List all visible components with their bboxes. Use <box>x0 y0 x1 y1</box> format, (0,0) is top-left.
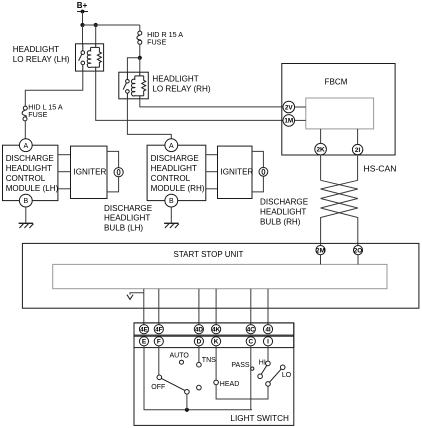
svg-text:HEADLIGHT: HEADLIGHT <box>152 75 198 84</box>
terminal 2K <box>315 143 327 155</box>
svg-text:4I: 4I <box>265 326 271 333</box>
start stop unit box <box>22 243 419 308</box>
svg-text:HEADLIGHT: HEADLIGHT <box>104 214 150 223</box>
terminal 1M <box>283 115 295 127</box>
svg-text:HEADLIGHT: HEADLIGHT <box>260 208 306 217</box>
switch TNS contact lower <box>197 385 202 390</box>
wire RH relay coil to FBCM 2V <box>140 99 283 107</box>
svg-text:DISCHARGE: DISCHARGE <box>104 204 153 213</box>
svg-text:F: F <box>157 339 161 346</box>
switch LO contact <box>280 365 285 370</box>
terminal C <box>246 337 255 346</box>
wire B+ down <box>82 12 84 26</box>
wire fuse L to module A <box>24 121 26 139</box>
wire to 4E with ground arrow stub <box>127 289 144 325</box>
svg-text:4C: 4C <box>247 326 256 333</box>
wire to LH relay switch <box>82 25 84 44</box>
terminal F <box>154 337 163 346</box>
terminal 2O <box>353 246 362 255</box>
node junction right <box>94 23 98 27</box>
relay HEADLIGHT LO RELAY (RH) <box>119 72 149 99</box>
svg-text:I: I <box>267 339 269 346</box>
svg-text:HEAD: HEAD <box>220 381 239 388</box>
wire fuse R to junction <box>139 44 141 58</box>
switch HI contact <box>266 361 271 366</box>
terminal A RH <box>165 139 178 152</box>
svg-text:C: C <box>248 339 253 346</box>
ground LH <box>19 207 34 228</box>
wire module RH to igniter (3 lines) <box>206 155 218 189</box>
switch HEAD contact <box>214 380 219 385</box>
terminal A LH <box>19 139 32 152</box>
module DISCHARGE HEADLIGHT CONTROL MODULE (LH) <box>3 145 59 200</box>
svg-text:MODULE (LH): MODULE (LH) <box>6 184 59 193</box>
svg-text:IGNITER: IGNITER <box>74 168 107 177</box>
svg-text:A: A <box>23 143 28 150</box>
wire junction to RH relay switch <box>127 58 139 72</box>
wire LH relay coil to FBCM 1M <box>96 71 283 120</box>
svg-text:K: K <box>214 339 219 346</box>
svg-text:AUTO: AUTO <box>170 352 190 359</box>
wire to 4I <box>267 289 269 325</box>
wire HS-CAN twisted pair <box>321 180 358 245</box>
svg-text:MODULE (RH): MODULE (RH) <box>151 184 205 193</box>
wire to 4F <box>158 289 160 325</box>
wire F to OFF contact <box>158 346 160 375</box>
label HEADLIGHT LO RELAY (RH) <box>152 75 210 94</box>
svg-text:HEADLIGHT: HEADLIGHT <box>6 164 52 173</box>
switch AUTO contact <box>180 360 184 364</box>
svg-text:4D: 4D <box>195 326 204 333</box>
relay HEADLIGHT LO RELAY (LH) <box>76 44 104 71</box>
svg-text:DISCHARGE: DISCHARGE <box>151 154 200 163</box>
svg-text:FUSE: FUSE <box>147 37 166 46</box>
svg-text:LO: LO <box>282 372 292 379</box>
svg-text:CONTROL: CONTROL <box>151 174 191 183</box>
switch PASS contact <box>251 367 254 370</box>
node junction fuse R <box>138 56 142 60</box>
svg-text:E: E <box>142 339 147 346</box>
wire 2O to inner box <box>357 255 359 265</box>
svg-text:CONTROL: CONTROL <box>6 174 46 183</box>
terminal 2I <box>352 144 362 154</box>
wire D to TNS contact <box>198 346 200 363</box>
svg-text:HS-CAN: HS-CAN <box>364 163 397 173</box>
wire junction to RH relay coil <box>139 58 141 72</box>
svg-text:HEADLIGHT: HEADLIGHT <box>151 164 197 173</box>
bulb LH (discharge headlight bulb) <box>107 151 123 192</box>
terminal I <box>263 337 272 346</box>
terminal 4E <box>139 325 148 334</box>
connector band row 2 <box>134 336 294 347</box>
svg-text:2I: 2I <box>355 147 361 154</box>
terminal B RH <box>165 194 178 207</box>
svg-text:HEADLIGHT: HEADLIGHT <box>13 45 59 54</box>
wire 2M to inner box <box>320 255 322 265</box>
wire to fuse R <box>139 25 141 31</box>
svg-text:HI: HI <box>259 360 266 367</box>
svg-text:LO RELAY (LH): LO RELAY (LH) <box>13 55 70 64</box>
svg-text:TNS: TNS <box>202 357 216 364</box>
svg-text:B: B <box>23 198 28 205</box>
svg-text:2M: 2M <box>316 247 325 254</box>
terminal 4I <box>263 325 272 334</box>
svg-text:2O: 2O <box>354 247 363 254</box>
switch HI arm contact <box>258 374 263 379</box>
wire K to HEAD contact <box>215 346 217 380</box>
svg-text:B+: B+ <box>77 1 88 10</box>
label DISCHARGE HEADLIGHT BULB (RH) <box>260 198 309 227</box>
switch OFF contact <box>157 375 162 380</box>
wire C down to rail <box>250 346 252 410</box>
terminal 2V <box>283 101 295 113</box>
node junction left <box>80 23 84 27</box>
ground RH <box>164 207 179 228</box>
terminal B LH <box>19 194 32 207</box>
node OFF pivot junction <box>185 408 189 412</box>
switch LO pivot contact <box>266 382 271 387</box>
fuse HID L 15 A <box>22 102 63 121</box>
svg-text:4E: 4E <box>140 326 149 333</box>
svg-text:LIGHT SWITCH: LIGHT SWITCH <box>230 414 289 423</box>
svg-text:PASS: PASS <box>231 362 249 369</box>
terminal 4C <box>246 325 255 334</box>
svg-text:IGNITER: IGNITER <box>221 168 254 177</box>
svg-text:1M: 1M <box>284 118 293 125</box>
wire top horizontal <box>83 24 140 26</box>
svg-text:A: A <box>169 143 174 150</box>
terminal 4K <box>212 325 221 334</box>
svg-text:OFF: OFF <box>151 384 165 391</box>
terminal K <box>212 337 221 346</box>
svg-text:B: B <box>169 198 174 205</box>
svg-text:4F: 4F <box>155 326 163 333</box>
wire to 4C <box>250 289 252 325</box>
wire to LH relay coil <box>95 25 97 44</box>
terminal 2M <box>316 246 325 255</box>
terminal 4D <box>194 325 203 334</box>
igniter LH <box>71 146 108 198</box>
terminal 4F <box>154 325 163 334</box>
FBCM box <box>282 64 395 156</box>
svg-text:2V: 2V <box>285 104 294 111</box>
switch TNS contact upper <box>197 362 202 367</box>
svg-text:DISCHARGE: DISCHARGE <box>6 154 55 163</box>
battery B+ <box>77 1 88 13</box>
wire E to common rail <box>144 346 252 410</box>
terminal E <box>139 337 148 346</box>
wire arm contact to rail <box>186 394 188 410</box>
svg-text:4K: 4K <box>212 326 221 333</box>
switch LO arm <box>270 369 282 382</box>
svg-text:FUSE: FUSE <box>28 110 47 119</box>
module DISCHARGE HEADLIGHT CONTROL MODULE (RH) <box>147 145 206 200</box>
switch OFF arm contact <box>185 390 190 395</box>
switch HI arm <box>261 365 267 374</box>
svg-text:LO RELAY (RH): LO RELAY (RH) <box>152 84 210 93</box>
svg-text:BULB (RH): BULB (RH) <box>260 218 301 227</box>
wire 2I down <box>357 155 359 181</box>
connector band row 1 <box>134 323 294 335</box>
wire to 4K <box>215 289 217 325</box>
svg-text:START STOP UNIT: START STOP UNIT <box>174 250 244 259</box>
light switch box <box>134 323 294 426</box>
switch OFF arm <box>161 378 185 390</box>
fuse HID R 15 A <box>137 30 183 47</box>
svg-text:DISCHARGE: DISCHARGE <box>260 198 309 207</box>
wire module LH to igniter (3 lines) <box>58 155 71 189</box>
svg-text:D: D <box>197 339 202 346</box>
svg-text:BULB (LH): BULB (LH) <box>104 223 143 232</box>
wire RH relay switch to module A RH <box>127 99 171 139</box>
wire I to HI contact <box>267 346 269 361</box>
wire to 4D <box>198 289 200 325</box>
label HEADLIGHT LO RELAY (LH) <box>13 45 70 64</box>
bulb RH (discharge headlight bulb) <box>252 151 268 192</box>
igniter RH <box>218 146 254 198</box>
svg-text:FBCM: FBCM <box>325 77 348 86</box>
label DISCHARGE HEADLIGHT BULB (LH) <box>104 204 153 232</box>
terminal D <box>194 337 203 346</box>
wire 2K down <box>320 155 322 180</box>
wire HEAD to LO pivot <box>216 385 268 399</box>
svg-text:2K: 2K <box>317 147 326 154</box>
wire LH relay switch to fuse L <box>25 71 83 106</box>
